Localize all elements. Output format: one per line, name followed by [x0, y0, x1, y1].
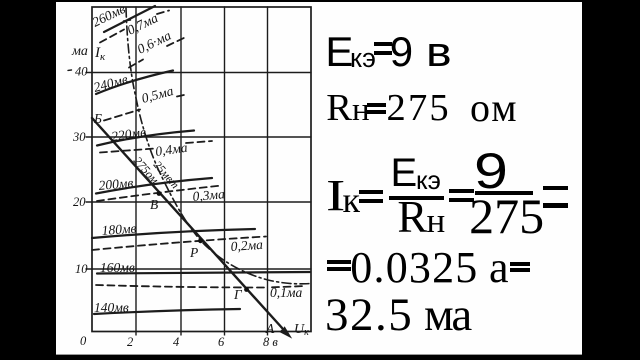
point G dot [244, 287, 249, 292]
grid horizontal 20ma [86, 201, 311, 203]
grid vertical 8v [267, 7, 269, 332]
svg-text:30: 30 [72, 130, 86, 144]
curve 140mv [94, 309, 240, 314]
svg-text:Iк: Iк [94, 45, 106, 63]
svg-text:260мв: 260мв [90, 1, 128, 30]
dashed curve 0.5ma [104, 95, 186, 121]
formula line 3: Iк = Екэ/Rн = 9/275 = [326, 174, 345, 218]
curve 160mv [97, 272, 310, 274]
svg-text:0,2ма: 0,2ма [230, 237, 263, 254]
svg-text:10: 10 [75, 262, 88, 276]
power curve dash-dot 25mvt [126, 8, 312, 284]
tick on dash-dot line [124, 20, 131, 21]
svg-text:0,3ма: 0,3ма [192, 186, 226, 204]
fraction 1 denominator Rн [397, 195, 427, 240]
svg-text:160мв: 160мв [100, 260, 135, 275]
dashed curve 0.7ma [100, 11, 169, 43]
svg-text:220мв: 220мв [110, 124, 147, 144]
curve 180mv [92, 229, 255, 238]
svg-text:Р: Р [189, 245, 198, 260]
dashed curve 0.4ma [100, 141, 212, 153]
svg-text:Б: Б [93, 111, 102, 126]
load line [92, 118, 288, 335]
svg-text:0,1ма: 0,1ма [270, 285, 302, 300]
curve 260mv [104, 6, 155, 32]
dashed curve 0.2ma [92, 237, 266, 251]
svg-text:0: 0 [80, 334, 87, 348]
svg-text:Г: Г [233, 287, 243, 302]
chart frame [92, 7, 311, 332]
curve 220mv [97, 131, 194, 146]
svg-text:40: 40 [75, 65, 88, 79]
svg-text:А: А [265, 321, 275, 336]
dashed curve 0.6ma [129, 37, 187, 68]
svg-text:20: 20 [73, 195, 86, 209]
svg-text:Uк: Uк [294, 322, 309, 338]
svg-text:ма: ма [71, 44, 88, 59]
svg-text:4: 4 [173, 335, 179, 349]
fraction 2 denominator 275 [469, 191, 544, 241]
dashed curve 0.1ma [96, 285, 306, 288]
svg-text:140мв: 140мв [94, 300, 129, 315]
x-axis tick 8v [267, 332, 269, 336]
svg-text:180мв: 180мв [101, 221, 137, 238]
svg-text:2: 2 [127, 335, 133, 349]
point P dot [198, 238, 203, 243]
grid horizontal 40ma [86, 72, 311, 74]
fraction 1 numerator Екэ [391, 153, 418, 193]
x-axis tick 4v [180, 332, 182, 336]
formula line 4: =0.0325 а= [327, 260, 351, 271]
x-axis tick 6v [224, 332, 226, 336]
formula line 2: Rн=275 ом [326, 89, 352, 128]
fraction bar 1 [389, 196, 444, 200]
x-axis tick 2v [135, 332, 137, 336]
curve 200mv [96, 178, 212, 194]
grid vertical 2v [135, 7, 137, 332]
grid horizontal 10ma [86, 268, 311, 270]
formula line 5: 32.5 ма [325, 292, 413, 339]
svg-text:8 в: 8 в [263, 335, 278, 349]
load line arrowhead [280, 327, 291, 337]
grid vertical 4v [180, 7, 182, 332]
point B dot [157, 191, 162, 196]
svg-text:0,5ма: 0,5ма [140, 83, 175, 106]
grid horizontal 30ma [86, 136, 311, 138]
svg-text:0,4ма: 0,4ма [154, 140, 188, 159]
svg-text:240мв: 240мв [92, 71, 130, 95]
fraction bar 2 [475, 191, 533, 195]
small tick left of 40 label [68, 69, 72, 71]
svg-text:6: 6 [218, 335, 225, 349]
grid vertical 6v [224, 7, 226, 332]
curve 240mv [96, 71, 173, 95]
formula line 1: Екэ=9 в [325, 31, 353, 73]
svg-text:200мв: 200мв [98, 175, 134, 193]
dashed curve 0.3ma [97, 186, 222, 202]
svg-text:В: В [150, 197, 158, 212]
fraction 2 numerator 9 [474, 146, 508, 196]
